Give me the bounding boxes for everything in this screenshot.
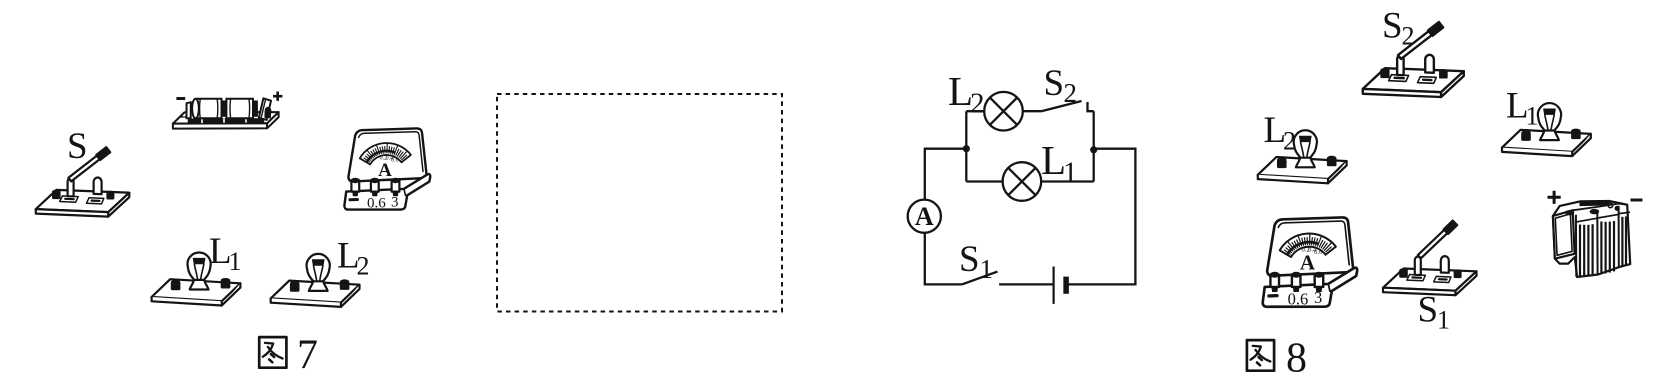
wire: right branch vertical bar	[1093, 111, 1095, 181]
lamp L2 (pictorial, fig 8)	[1258, 130, 1347, 183]
lamp L2 (schematic circle-X)	[984, 92, 1023, 131]
ammeter A (pictorial, fig 8)	[1263, 217, 1357, 308]
switch S1 (schematic, open blade)	[962, 272, 998, 285]
svg-text:7: 7	[297, 333, 318, 379]
label + (battery pack positive, fig 8)	[1548, 191, 1561, 204]
switch S2 (schematic, open blade)	[1041, 101, 1081, 111]
wire: left branch vertical bar	[965, 111, 967, 181]
wire: bottom left to ammeter	[925, 233, 962, 285]
wire: lower branch to lamp L1	[966, 180, 1002, 182]
wire: top branch to lamp L2	[966, 110, 984, 112]
lamp L1 (schematic circle-X)	[1003, 162, 1042, 201]
ammeter A (pictorial, fig 7)	[344, 128, 430, 211]
svg-text:2: 2	[1283, 127, 1296, 156]
svg-text:S: S	[1044, 63, 1065, 104]
battery cell (schematic)	[1052, 267, 1054, 304]
label - (battery holder negative, fig 7)	[176, 97, 185, 100]
svg-text:2: 2	[1402, 22, 1415, 51]
switch S (knife switch, fig 7)	[36, 147, 130, 216]
svg-text:S: S	[1382, 6, 1403, 47]
svg-text:1: 1	[1526, 102, 1539, 131]
caption 图8	[1247, 340, 1274, 371]
wire: ammeter up to node A	[924, 149, 926, 200]
caption 图7	[259, 337, 286, 368]
ammeter A (schematic circle)	[908, 200, 941, 233]
wire: battery to switch S1	[999, 283, 1054, 285]
switch S1 (pictorial, fig 8)	[1383, 221, 1477, 296]
lamp L1 (pictorial, fig 8)	[1502, 103, 1591, 156]
wire: lamp L2 to switch S2	[1023, 110, 1042, 112]
svg-text:2: 2	[357, 252, 370, 281]
svg-text:1: 1	[1063, 157, 1078, 189]
svg-text:1: 1	[229, 247, 242, 276]
svg-text:S: S	[1418, 290, 1439, 331]
label + (battery holder positive, fig 7)	[273, 92, 282, 101]
switch S2 (pictorial, fig 8)	[1363, 22, 1464, 97]
dashed answer box	[497, 94, 782, 312]
svg-text:A: A	[915, 202, 934, 231]
battery holder with two cells (fig 7)	[173, 98, 279, 128]
svg-text:2: 2	[970, 88, 985, 120]
svg-text:1: 1	[980, 254, 994, 284]
label - (battery pack negative, fig 8)	[1631, 199, 1643, 202]
wire: node B to right side	[1066, 149, 1135, 285]
battery pack (3-cell box, fig 8)	[1553, 201, 1630, 277]
node: left junction dot	[963, 145, 970, 152]
lamp L1 (pictorial, fig 7)	[152, 252, 241, 305]
wire: lamp L1 to right bar	[1041, 180, 1094, 182]
svg-text:1: 1	[1437, 306, 1450, 335]
wire: left horizontal to node A	[924, 148, 967, 150]
node: right junction dot	[1090, 146, 1097, 153]
svg-text:S: S	[67, 126, 88, 167]
lamp L2 (pictorial, fig 7)	[271, 254, 360, 307]
svg-text:8: 8	[1286, 336, 1307, 382]
svg-text:S: S	[959, 239, 980, 280]
svg-text:2: 2	[1064, 78, 1078, 108]
